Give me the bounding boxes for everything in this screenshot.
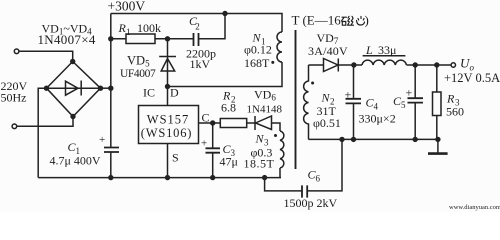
svg-text:4: 4 bbox=[374, 102, 379, 112]
svg-text:330μ×2: 330μ×2 bbox=[359, 112, 396, 126]
svg-text:IC: IC bbox=[143, 86, 155, 100]
svg-text:N: N bbox=[321, 91, 331, 105]
svg-text:100k: 100k bbox=[137, 21, 161, 35]
svg-text:www.dianyuan.com: www.dianyuan.com bbox=[449, 204, 500, 211]
svg-text:D: D bbox=[170, 86, 179, 100]
svg-text:6.8: 6.8 bbox=[221, 101, 236, 115]
svg-text:1N4148: 1N4148 bbox=[247, 104, 283, 116]
svg-text:+12V 0.5A: +12V 0.5A bbox=[444, 71, 500, 85]
svg-text:33μ: 33μ bbox=[378, 43, 396, 57]
svg-text:560: 560 bbox=[446, 105, 464, 119]
svg-text:3A/40V: 3A/40V bbox=[308, 44, 348, 58]
svg-text:L: L bbox=[365, 43, 373, 57]
svg-text:5: 5 bbox=[401, 100, 406, 110]
svg-text:1500p 2kV: 1500p 2kV bbox=[284, 196, 338, 210]
svg-text:): ) bbox=[365, 13, 369, 28]
svg-text:C: C bbox=[202, 111, 210, 125]
svg-text:+: + bbox=[406, 86, 413, 100]
svg-text:2: 2 bbox=[195, 22, 200, 32]
svg-text:50Hz: 50Hz bbox=[1, 91, 27, 105]
svg-text:47μ: 47μ bbox=[220, 155, 238, 169]
svg-text:φ0.51: φ0.51 bbox=[313, 116, 341, 130]
svg-text:168T: 168T bbox=[244, 56, 270, 70]
svg-text:+300V: +300V bbox=[108, 0, 146, 14]
svg-text:UF4007: UF4007 bbox=[120, 68, 156, 80]
svg-text:18.5T: 18.5T bbox=[244, 157, 275, 171]
svg-text:S: S bbox=[172, 151, 179, 165]
svg-text:1kV: 1kV bbox=[190, 57, 211, 71]
svg-text:T (E—16: T (E—16 bbox=[292, 13, 342, 28]
svg-text:N: N bbox=[255, 132, 265, 146]
svg-text:1N4007×4: 1N4007×4 bbox=[38, 32, 96, 47]
svg-text:WS157: WS157 bbox=[147, 113, 190, 127]
svg-text:1: 1 bbox=[126, 27, 131, 37]
svg-text:4.7μ 400V: 4.7μ 400V bbox=[50, 154, 101, 168]
svg-text:+: + bbox=[201, 138, 207, 150]
svg-text:+: + bbox=[99, 134, 105, 146]
svg-text:R: R bbox=[446, 92, 455, 106]
svg-text:φ0.12: φ0.12 bbox=[244, 43, 272, 57]
svg-text:(WS106): (WS106) bbox=[141, 126, 192, 140]
svg-text:+: + bbox=[345, 88, 352, 102]
svg-text:6: 6 bbox=[316, 174, 321, 184]
